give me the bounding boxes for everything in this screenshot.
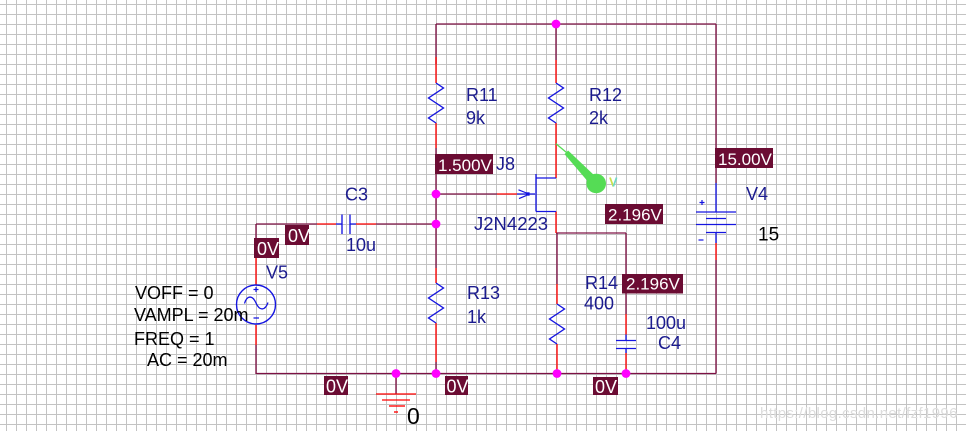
svg-text:0V: 0V xyxy=(447,376,469,396)
svg-text:1.500V: 1.500V xyxy=(438,156,493,175)
svg-text:10u: 10u xyxy=(346,235,376,255)
svg-text:2.196V: 2.196V xyxy=(608,206,663,225)
svg-text:R14: R14 xyxy=(585,273,618,293)
svg-text:V5: V5 xyxy=(266,263,288,283)
svg-text:R11: R11 xyxy=(466,85,498,105)
svg-text:V4: V4 xyxy=(746,184,768,204)
svg-text:0V: 0V xyxy=(288,226,310,246)
svg-text:J8: J8 xyxy=(496,154,515,174)
svg-text:2k: 2k xyxy=(589,108,609,128)
svg-text:C4: C4 xyxy=(658,333,681,353)
svg-text:15.00V: 15.00V xyxy=(718,150,773,169)
svg-text:0: 0 xyxy=(407,403,420,429)
svg-text:AC = 20m: AC = 20m xyxy=(147,350,228,370)
svg-text:C3: C3 xyxy=(345,185,368,205)
svg-text:R12: R12 xyxy=(589,85,622,105)
svg-text:1k: 1k xyxy=(467,307,487,327)
svg-text:2.196V: 2.196V xyxy=(626,275,681,294)
svg-text:100u: 100u xyxy=(646,313,686,333)
svg-text:VAMPL = 20m: VAMPL = 20m xyxy=(134,305,249,325)
svg-text:0V: 0V xyxy=(595,377,617,397)
svg-text:https://blog.csdn.net/fzf1996: https://blog.csdn.net/fzf1996 xyxy=(760,405,958,422)
svg-text:0V: 0V xyxy=(326,376,348,396)
svg-text:FREQ = 1: FREQ = 1 xyxy=(134,329,215,349)
svg-text:15: 15 xyxy=(758,225,779,246)
svg-text:VOFF = 0: VOFF = 0 xyxy=(135,283,214,303)
svg-text:9k: 9k xyxy=(466,108,486,128)
svg-text:J2N4223: J2N4223 xyxy=(474,213,548,234)
svg-text:0V: 0V xyxy=(257,239,279,259)
svg-text:400: 400 xyxy=(584,294,614,314)
svg-text:R13: R13 xyxy=(467,283,500,303)
